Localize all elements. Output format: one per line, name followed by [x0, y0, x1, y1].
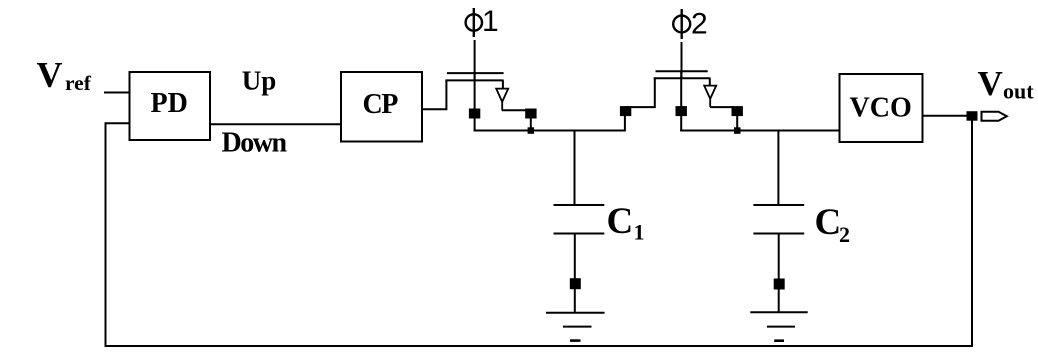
contact square M2 drain: [676, 106, 687, 116]
node Vout label: [978, 64, 1035, 104]
wire Vref input to PD: [104, 92, 129, 94]
svg-text:2: 2: [839, 222, 850, 247]
wire M2 bulk horizontal: [710, 106, 734, 108]
wire C1 square to ground: [574, 289, 576, 313]
capacitor C2 top plate: [753, 204, 804, 206]
transistor M2 channel bar: [654, 77, 711, 79]
wire M2 bulk to node B: [736, 116, 738, 132]
svg-text:V: V: [978, 64, 1003, 103]
arrow M2 bulk (open triangle): [704, 86, 716, 108]
oscillator VCO: [840, 74, 923, 142]
svg-text:VCO: VCO: [850, 93, 912, 124]
wire phi1 gate lead: [474, 40, 476, 81]
junction dot node A / M1 bulk: [528, 127, 535, 134]
capacitor C1 bottom lead: [574, 234, 576, 280]
wire C2 square to ground: [778, 290, 780, 313]
label C1: [607, 201, 645, 245]
output terminal flag: [982, 112, 1007, 121]
svg-text:C: C: [607, 201, 634, 242]
svg-text:out: out: [1003, 79, 1034, 104]
capacitor C2 top lead: [777, 131, 779, 206]
capacitor C1 top plate: [554, 204, 605, 206]
contact square C1 ground: [570, 278, 581, 289]
wire M2 drain to node B: [680, 116, 682, 132]
wire node B: [680, 130, 839, 132]
label phi2: [673, 8, 707, 41]
svg-text:CP: CP: [363, 89, 399, 120]
svg-text:PD: PD: [151, 88, 188, 119]
wire M1 bulk to node A: [530, 118, 532, 131]
phase detector PD: [130, 72, 211, 140]
svg-text:C: C: [815, 202, 842, 243]
wire feedback right vertical: [971, 120, 973, 347]
svg-text:1: 1: [634, 220, 645, 245]
wire feedback into PD input: [106, 122, 130, 124]
transistor M2 gate bar: [656, 70, 708, 72]
wire feedback left vertical: [105, 122, 107, 347]
wire M1 bulk horizontal: [502, 109, 527, 111]
junction square output node: [967, 111, 978, 121]
arrow M1 bulk (open triangle): [496, 89, 508, 111]
node Vref label: [37, 55, 92, 96]
svg-text:Up: Up: [242, 66, 277, 96]
wire M1 drain vertical: [474, 73, 476, 109]
svg-text:Down: Down: [222, 127, 288, 158]
wire node A: [474, 130, 625, 132]
wire M2 bulk arm vertical: [709, 78, 711, 85]
svg-text:1: 1: [482, 5, 499, 38]
wire VCO output: [923, 115, 968, 117]
wire feedback bottom: [105, 345, 974, 347]
label C2: [815, 202, 851, 247]
wire M1 bulk arm vertical: [502, 80, 504, 88]
label phi1: [466, 5, 499, 38]
contact square M2 source: [620, 106, 631, 116]
contact square M1 bulk: [525, 109, 536, 119]
wire CP output: [422, 80, 446, 109]
capacitor C1 top lead: [574, 131, 576, 206]
capacitor C2 bottom lead: [778, 234, 780, 280]
contact square M1 drain: [469, 109, 480, 119]
wire PD output to CP: [210, 123, 341, 125]
wire M2 source horizontal jog: [625, 106, 655, 108]
contact square M2 bulk: [732, 106, 743, 116]
svg-text:V: V: [37, 55, 63, 95]
wire M2 source vertical: [654, 78, 656, 108]
contact square C2 ground: [774, 279, 785, 290]
capacitor C2 bottom plate: [753, 233, 804, 235]
charge pump CP: [341, 72, 422, 142]
transistor M1 channel bar: [445, 79, 503, 81]
transistor M1 gate bar: [447, 72, 504, 74]
svg-text:2: 2: [691, 8, 708, 41]
wire phi2 gate lead: [681, 42, 683, 79]
ground symbol G1: [546, 313, 605, 341]
wire M1 drain to node A: [474, 118, 476, 132]
capacitor C1 bottom plate: [554, 233, 605, 235]
wire M2 source to node A: [624, 116, 626, 132]
wire M2 drain vertical: [680, 71, 682, 108]
junction dot node B / M2 bulk: [734, 127, 741, 134]
ground symbol G2: [750, 312, 807, 341]
svg-text:ref: ref: [65, 71, 92, 95]
